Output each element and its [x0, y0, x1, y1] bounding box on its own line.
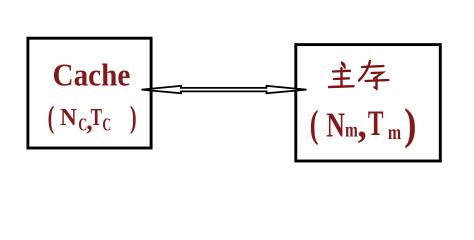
svg-text:,: , — [357, 104, 367, 146]
svg-text:Cache: Cache — [53, 57, 131, 93]
主 middle horizontal — [334, 77, 349, 80]
存 zi horizontal-fall — [372, 73, 383, 79]
svg-text:m: m — [345, 118, 358, 141]
svg-text:m: m — [388, 121, 401, 145]
svg-text:C: C — [102, 116, 111, 135]
存 top horizontal — [362, 66, 384, 67]
主 dot — [342, 62, 345, 68]
svg-text:N: N — [60, 105, 77, 131]
存 zi vertical hook — [375, 78, 377, 89]
box main memory (right block) — [296, 45, 441, 161]
label (Nc,Tc) — [48, 99, 137, 136]
svg-text:T: T — [91, 103, 103, 131]
label Cache — [53, 57, 131, 93]
主 top horizontal — [333, 70, 350, 73]
svg-text:(: ( — [48, 99, 55, 135]
label 主存 (main memory), hand-drawn strokes — [329, 61, 389, 89]
wire double-headed hollow arrow between Cache and main memory — [142, 86, 307, 93]
主 vertical — [340, 68, 342, 86]
存 zi long horizontal — [366, 80, 389, 81]
svg-text:(: ( — [310, 103, 319, 146]
svg-text:N: N — [326, 106, 345, 144]
label (Nm,Tm) — [310, 100, 417, 149]
box Cache (left block) — [28, 38, 151, 148]
svg-text:): ) — [130, 99, 137, 135]
svg-text:T: T — [368, 103, 384, 143]
主 bottom horizontal — [329, 85, 354, 88]
svg-text:): ) — [404, 100, 416, 149]
存 left-falling stroke — [359, 61, 370, 81]
